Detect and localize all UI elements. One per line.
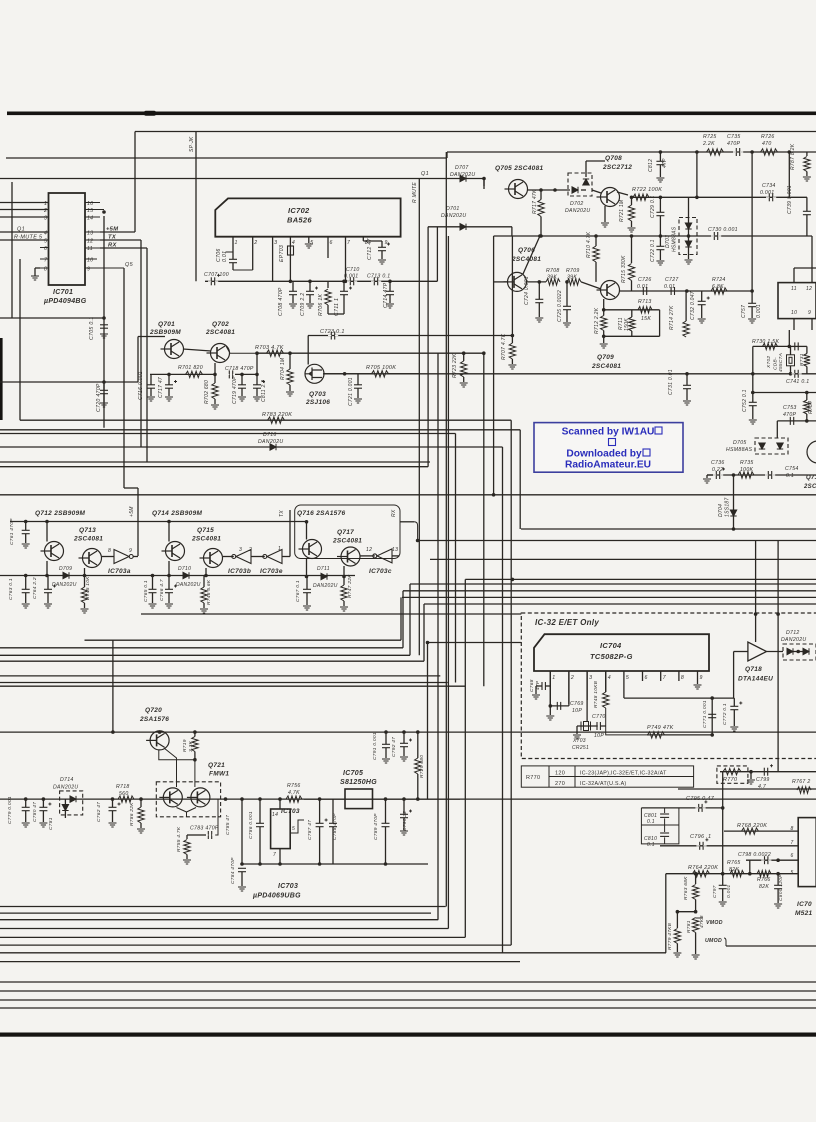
wire C798 riser bbox=[749, 860, 751, 874]
wire C720 lower stub bbox=[103, 394, 105, 402]
resistor R721 bbox=[628, 205, 634, 221]
junction R724 right bbox=[750, 289, 754, 293]
diode D716 bbox=[270, 444, 276, 450]
svg-text:R745 10K: R745 10K bbox=[85, 576, 91, 600]
capacitor C718 series bbox=[226, 370, 236, 378]
IC704 body bbox=[534, 634, 709, 671]
wire R723 stub2 bbox=[463, 377, 465, 382]
svg-text:12: 12 bbox=[87, 239, 93, 245]
wire step vertical x=410 bbox=[409, 584, 411, 655]
svg-text:Q1: Q1 bbox=[421, 171, 429, 177]
junction R725 left bbox=[695, 150, 699, 154]
capacitor C770 plates bbox=[597, 722, 600, 730]
junction x=677 branch bbox=[676, 910, 680, 914]
wire vertical x=104 pin15 bbox=[103, 216, 105, 428]
resistor R712 bbox=[601, 316, 607, 331]
transistor Q709 bbox=[597, 281, 620, 300]
wire C761 stub bbox=[25, 522, 27, 531]
svg-text:Q705 2SC4081: Q705 2SC4081 bbox=[495, 165, 543, 172]
wire vertical x=427.5 bbox=[427, 643, 429, 800]
ground C736 bbox=[703, 479, 711, 483]
wire R725 riser bbox=[696, 152, 698, 197]
capacitor C763 bbox=[22, 589, 30, 592]
svg-text:C781: C781 bbox=[48, 817, 54, 830]
svg-text:C720 470P: C720 470P bbox=[96, 383, 102, 412]
wire IC701 pin5 line RMUTE bbox=[0, 239, 48, 241]
svg-text:2SB909M: 2SB909M bbox=[149, 329, 181, 336]
junction D711 left bbox=[305, 575, 309, 579]
svg-text:9: 9 bbox=[700, 675, 703, 681]
capacitor C786 bbox=[256, 823, 264, 826]
svg-text:Q717: Q717 bbox=[337, 529, 354, 536]
wire pin9 link bbox=[363, 240, 382, 242]
wire P749 line bbox=[647, 734, 712, 736]
ground R721 bbox=[628, 228, 636, 232]
resistor R755 bbox=[184, 840, 190, 855]
junction R720 bottom bbox=[416, 797, 420, 801]
transistor Q701 bbox=[161, 340, 184, 359]
capacitor C716 bbox=[147, 385, 155, 388]
junction Q713 bottom bbox=[83, 574, 87, 578]
resistor R787 bbox=[804, 157, 810, 172]
junction C779 top bbox=[24, 797, 28, 801]
junction C789 top bbox=[384, 797, 388, 801]
resistor R720 bbox=[415, 758, 421, 774]
svg-text:C761 470P: C761 470P bbox=[9, 518, 15, 545]
wire IC703c input line bbox=[392, 555, 400, 557]
wire IC704 pin 5 stub bbox=[623, 671, 625, 698]
junction R707 top bbox=[511, 334, 515, 338]
capacitor C736 bbox=[713, 468, 725, 480]
wire R770 gnd stub bbox=[750, 772, 752, 779]
junction R734 top bbox=[805, 391, 809, 395]
transistor Q705 bbox=[505, 180, 528, 199]
wire Q708 base feed bbox=[592, 190, 601, 193]
wire R730 left riser bbox=[752, 346, 754, 392]
junction C786 bottom bbox=[258, 862, 262, 866]
wire C800 stub bbox=[777, 874, 779, 885]
wire Q705 collector line bbox=[527, 189, 570, 191]
wire bus y=682.5 bbox=[0, 682, 448, 684]
ground C712 bbox=[378, 260, 386, 264]
wire step vertical x=403 bbox=[402, 591, 404, 648]
ground C716 bbox=[147, 397, 155, 401]
svg-text:D704: D704 bbox=[718, 504, 724, 517]
junction D704 bottom bbox=[732, 527, 736, 531]
junction pin1 bottom bbox=[549, 704, 553, 708]
wire C780 stub2 bbox=[42, 811, 44, 822]
resistor P749 bbox=[648, 732, 665, 738]
wire IC703 bottom rail y=864 bbox=[242, 863, 428, 865]
svg-text:Q5: Q5 bbox=[125, 262, 134, 268]
capacitor C757 bbox=[748, 303, 756, 306]
junction R719 top bbox=[193, 730, 197, 734]
bottom thick border bar bbox=[0, 1033, 816, 1037]
wire Q716 collector riser bbox=[306, 522, 308, 540]
diode D714 upper bbox=[70, 796, 76, 802]
wire R706-C711 bottom link bbox=[328, 313, 344, 315]
svg-text:TX: TX bbox=[279, 510, 285, 517]
ground C780 bbox=[39, 823, 47, 827]
svg-text:13: 13 bbox=[392, 547, 398, 553]
wire x=666 drop bbox=[665, 874, 667, 953]
capacitor C734 bbox=[766, 193, 776, 201]
svg-text:2.2K: 2.2K bbox=[702, 141, 715, 147]
svg-text:HSM88AS: HSM88AS bbox=[726, 447, 753, 453]
capacitor C717 electrolytic bbox=[165, 380, 177, 388]
ground C766 bbox=[165, 604, 173, 608]
capacitor C790 electrolytic bbox=[400, 810, 412, 818]
wire C725 stub bbox=[566, 282, 568, 306]
wire C736 gnd link bbox=[707, 474, 713, 476]
diode D705 left bbox=[759, 443, 765, 449]
wire R787 stub2 bbox=[806, 172, 808, 177]
svg-text:C769: C769 bbox=[570, 701, 584, 707]
capacitor C710 series bbox=[347, 277, 357, 285]
junction R730 pin10 bbox=[788, 345, 792, 349]
wire IC704 pin 2 stub bbox=[568, 671, 570, 704]
wire step vertical x=401 bbox=[400, 597, 402, 640]
resistor R783 bbox=[268, 417, 285, 423]
svg-text:2: 2 bbox=[43, 208, 47, 214]
wire TX route y=447 bbox=[0, 446, 503, 448]
svg-text:C735: C735 bbox=[727, 134, 741, 140]
wire C721 stub2 bbox=[357, 389, 359, 399]
svg-text:C771 0.001: C771 0.001 bbox=[702, 700, 708, 728]
wire vertical x=438 long bbox=[437, 353, 439, 920]
wire IC703e input bbox=[282, 556, 290, 558]
wire D702 top link bbox=[586, 160, 605, 162]
resistor R703 bbox=[267, 350, 284, 356]
svg-text:C764 2.2: C764 2.2 bbox=[32, 577, 38, 599]
capacitor C708 bbox=[289, 291, 297, 294]
wire bus y=429.8 bbox=[0, 429, 520, 431]
svg-text:0.01: 0.01 bbox=[664, 284, 675, 290]
capacitor C780 electrolytic bbox=[39, 803, 51, 811]
wire R715 stub2 bbox=[631, 281, 633, 292]
junction D702 in bbox=[553, 188, 557, 192]
junction bus642 x=427.5 bbox=[426, 641, 430, 645]
wire main bus y=236 bbox=[494, 235, 812, 237]
junction C719 top bbox=[240, 373, 244, 377]
svg-text:RadioAmateur.EU: RadioAmateur.EU bbox=[565, 460, 651, 471]
top bar ink blob bbox=[144, 111, 156, 116]
junction R719 bottom bbox=[193, 758, 197, 762]
wire Q702 emitter down bbox=[214, 363, 216, 374]
junction Q717 bottom bbox=[342, 575, 346, 579]
diode D707 bbox=[460, 175, 466, 181]
resistor R770 dashed box bbox=[717, 766, 748, 783]
wire C790 stub2 bbox=[403, 818, 405, 830]
wire C811 stub bbox=[256, 374, 258, 384]
svg-text:CDB-: CDB- bbox=[773, 357, 779, 370]
capacitor C726 bbox=[640, 287, 650, 295]
ground C772 bbox=[730, 727, 738, 731]
wire C762 stub bbox=[112, 799, 114, 807]
transistor Q702 bbox=[207, 344, 230, 363]
ground C761 bbox=[22, 544, 30, 548]
svg-text:C763 0.1: C763 0.1 bbox=[8, 578, 14, 600]
wire C752 stub2 bbox=[752, 406, 754, 419]
op-amp M5218 block bbox=[798, 818, 816, 887]
wire vertical x=446 long bbox=[445, 152, 447, 907]
wire top bus y=152 right bbox=[447, 151, 816, 153]
ground C752 bbox=[749, 420, 757, 424]
diode D701 bbox=[460, 224, 466, 230]
wire C712 stub bbox=[381, 241, 383, 247]
svg-text:3: 3 bbox=[44, 216, 47, 222]
wire R745 stub2 bbox=[84, 603, 86, 608]
watermark square1 bbox=[655, 427, 662, 434]
IF block IC right top bbox=[778, 283, 816, 319]
svg-text:C800 120P: C800 120P bbox=[778, 874, 784, 901]
ground D703 bbox=[685, 260, 693, 264]
wire C800 stub2 bbox=[777, 889, 779, 903]
ground C731 bbox=[683, 401, 691, 405]
junction C800 top bbox=[776, 872, 780, 876]
resistor R719 bbox=[192, 737, 198, 752]
capacitor C801 C810 parallel loop bbox=[641, 808, 679, 844]
svg-text:D714: D714 bbox=[60, 777, 74, 783]
resistor R764 bbox=[693, 871, 710, 877]
wire R701 line bbox=[150, 373, 215, 375]
ground R702 bbox=[211, 405, 219, 409]
wire C717 stub bbox=[168, 374, 170, 384]
svg-text:0.001: 0.001 bbox=[726, 884, 732, 898]
wire C779 stub2 bbox=[25, 811, 27, 822]
svg-text:C708 470P: C708 470P bbox=[278, 287, 284, 316]
wire top bus y=158 left bbox=[6, 157, 447, 159]
wire C799 drop bbox=[722, 772, 724, 808]
inverter IC703c bbox=[373, 549, 392, 563]
svg-text:IC-23(JAP),IC-32E/ET,IC-32A/AT: IC-23(JAP),IC-32E/ET,IC-32A/AT bbox=[580, 771, 667, 777]
op-amp IC702 body bbox=[215, 198, 400, 236]
wire vertical x=138 +5M drop bbox=[137, 488, 139, 556]
wire R721 leads bbox=[631, 197, 633, 205]
junction C786 top bbox=[258, 797, 262, 801]
svg-text:270: 270 bbox=[555, 781, 565, 787]
svg-text:Q720: Q720 bbox=[145, 707, 162, 714]
svg-text:R706 1K: R706 1K bbox=[318, 293, 324, 316]
svg-text:IC705: IC705 bbox=[343, 770, 363, 777]
transistor Q718 triangle bbox=[748, 642, 767, 661]
wire bus y=604 bbox=[424, 603, 816, 605]
svg-text:R765: R765 bbox=[727, 860, 741, 866]
svg-text:14: 14 bbox=[272, 812, 278, 818]
wire C734 line bbox=[697, 196, 807, 198]
svg-text:D703: D703 bbox=[665, 235, 671, 248]
wire IC704 pin 4 stub bbox=[605, 671, 607, 692]
svg-text:6: 6 bbox=[791, 853, 794, 859]
wire Q717 collector drop bbox=[343, 566, 345, 577]
wire C731 stub bbox=[686, 374, 688, 385]
wire C714 stub2 bbox=[389, 295, 391, 303]
wire C706 stub3 bbox=[232, 263, 234, 270]
transistor Q706 bbox=[504, 272, 527, 291]
wire C752 stub bbox=[752, 393, 754, 403]
wire C724 stub2 bbox=[538, 303, 540, 317]
wire bus y=597.4 bbox=[402, 596, 816, 598]
wire IC702 pin 7 stub bbox=[345, 237, 347, 282]
ground C792 bbox=[400, 757, 408, 761]
svg-text:47P: 47P bbox=[662, 158, 668, 168]
wire C764 stub bbox=[47, 576, 49, 590]
svg-text:D711: D711 bbox=[317, 566, 330, 572]
inverter IC703b bbox=[232, 550, 251, 564]
wire vertical x=755 up bbox=[755, 541, 757, 615]
wire R746 stub2 bbox=[203, 603, 205, 608]
wire R702 stub bbox=[214, 374, 216, 383]
wire IC702 pin 6 stub bbox=[327, 237, 329, 258]
junction C811 top R703 bbox=[255, 373, 259, 377]
svg-text:C780 47: C780 47 bbox=[32, 802, 38, 822]
wire C719 stub bbox=[241, 374, 243, 384]
svg-text:C716 0.001: C716 0.001 bbox=[138, 371, 144, 400]
svg-text:DAN202U: DAN202U bbox=[441, 213, 466, 219]
wire R714 stub bbox=[685, 291, 687, 321]
svg-text:DAN202U: DAN202U bbox=[781, 637, 806, 643]
wire C783 left bbox=[196, 834, 206, 836]
svg-text:C766 4.7: C766 4.7 bbox=[159, 579, 165, 601]
junction R770 right bbox=[749, 770, 753, 774]
wire R702 stub2 bbox=[214, 399, 216, 404]
wire +5M stub pin13 bbox=[100, 231, 135, 233]
junction R705 left bbox=[343, 372, 347, 376]
wire IC704 pin 6 stub bbox=[642, 671, 644, 681]
svg-text:10P: 10P bbox=[572, 708, 582, 714]
capacitor C742 series bbox=[792, 342, 802, 350]
watermark square2 bbox=[609, 439, 616, 446]
wire bus y=529 bbox=[521, 528, 816, 530]
wire X702 top lead bbox=[790, 346, 792, 354]
svg-text:Q715: Q715 bbox=[197, 527, 214, 534]
wire TX stub pin12 bbox=[100, 239, 141, 241]
junction Q706 collector bbox=[538, 234, 542, 238]
svg-text:C711 1: C711 1 bbox=[334, 298, 340, 316]
wire RX stub pin11 bbox=[100, 247, 147, 249]
ground R707 bbox=[508, 365, 516, 369]
capacitor C713 series bbox=[371, 277, 381, 285]
wire diode row y=575.5 bbox=[0, 575, 355, 577]
wire vertical x=493.5 bbox=[493, 236, 495, 495]
capacitor C725 bbox=[563, 306, 571, 309]
junction D709 left bbox=[45, 574, 49, 578]
junction C714 bbox=[388, 280, 392, 284]
wire C732 stub bbox=[701, 291, 703, 301]
transistor Q713 bbox=[79, 549, 102, 568]
capacitor C761 bbox=[22, 530, 30, 533]
junction C798 bbox=[776, 858, 780, 862]
svg-text:12: 12 bbox=[366, 547, 372, 553]
wire R730 line bbox=[753, 345, 791, 347]
svg-text:Q712 2SB909M: Q712 2SB909M bbox=[35, 510, 85, 517]
wire C789 stub2 bbox=[385, 827, 387, 864]
svg-text:C729 0.1: C729 0.1 bbox=[650, 195, 656, 218]
capacitor C724 bbox=[535, 299, 543, 302]
svg-text:VMOD: VMOD bbox=[706, 920, 723, 926]
junction IC703 pin14 bbox=[278, 797, 282, 801]
wire Q721 emitters bbox=[177, 799, 219, 835]
wire IC703 pin7 stub bbox=[279, 849, 281, 864]
crystal X703 body bbox=[581, 722, 591, 731]
wire Q716 emitter drop bbox=[306, 559, 308, 577]
wire C786 stub bbox=[259, 799, 261, 823]
wire R720 stub2 bbox=[417, 774, 419, 799]
resistor R714 bbox=[683, 321, 689, 337]
wire C709 stub2 bbox=[309, 295, 311, 303]
wire R745 stub bbox=[84, 576, 86, 588]
capacitor C714 bbox=[386, 291, 394, 294]
svg-text:R701 820: R701 820 bbox=[178, 365, 203, 371]
capacitor C754 bbox=[765, 471, 775, 479]
regulator IC705 body bbox=[345, 789, 373, 809]
junction C787 bottom bbox=[318, 862, 322, 866]
ground R704 bbox=[286, 392, 294, 396]
ground X703 bbox=[573, 735, 581, 739]
resistor R781 bbox=[692, 918, 698, 933]
wire R704 stub bbox=[289, 353, 291, 369]
capacitor C799 electrolytic bbox=[761, 764, 773, 776]
junction C729 bottom bbox=[659, 234, 663, 238]
svg-text:R770: R770 bbox=[526, 775, 540, 781]
svg-text:2SA1576: 2SA1576 bbox=[139, 716, 169, 723]
svg-text:C811 2.2: C811 2.2 bbox=[261, 380, 267, 402]
svg-text:R705 100K: R705 100K bbox=[366, 365, 396, 371]
wire audio box top bbox=[678, 788, 816, 790]
wire R720 stub bbox=[417, 732, 419, 758]
wire D704 riser bbox=[733, 475, 735, 529]
svg-text:R719: R719 bbox=[182, 739, 188, 752]
svg-text:0.22: 0.22 bbox=[712, 467, 723, 473]
wire X703 line bbox=[577, 725, 606, 727]
wire IC701 pin8 gnd drop bbox=[34, 268, 36, 276]
wire C796 riser bbox=[722, 808, 724, 874]
wire pin2 drop bbox=[568, 671, 570, 706]
svg-text:13: 13 bbox=[87, 231, 93, 237]
wire IC702 output line y=281.3 bbox=[205, 280, 437, 282]
wire R779 stub2 bbox=[676, 944, 678, 953]
wire C705 stub bbox=[103, 318, 105, 325]
ground C721 bbox=[354, 399, 362, 403]
wire D714 lower stub2 bbox=[64, 811, 66, 818]
svg-text:IC70: IC70 bbox=[797, 901, 812, 908]
wire VMOD link bbox=[696, 918, 726, 946]
wire C769 line bbox=[550, 705, 569, 707]
svg-text:C741 0.1: C741 0.1 bbox=[786, 379, 809, 385]
svg-text:9: 9 bbox=[87, 267, 90, 273]
wire bottom full bus y=1000 bbox=[0, 999, 816, 1001]
wire R710 stub bbox=[595, 236, 597, 246]
wire C771 riser bbox=[711, 698, 713, 735]
wire vertical riser x=437.4 bbox=[436, 227, 438, 281]
wire pin11 stub bbox=[793, 268, 795, 283]
svg-text:R707 4.7K: R707 4.7K bbox=[501, 333, 507, 360]
svg-text:R724: R724 bbox=[712, 277, 726, 283]
resistor R718 bbox=[118, 796, 134, 802]
wire IC702 pin 4 stub bbox=[289, 237, 291, 282]
wire D701 line y=226.8 bbox=[428, 226, 512, 228]
junction pin7 on y=281 bbox=[344, 280, 348, 284]
wire IC702 pin 1 stub bbox=[232, 237, 234, 252]
svg-text:2SC3: 2SC3 bbox=[803, 484, 816, 490]
wire R763 branch bbox=[677, 911, 695, 913]
svg-text:4.7K: 4.7K bbox=[288, 790, 300, 796]
junction C780 top bbox=[42, 797, 46, 801]
resistor R746 bbox=[201, 587, 207, 603]
svg-text:C722 0.1: C722 0.1 bbox=[650, 239, 656, 262]
wire IC701 pin3 line bbox=[0, 216, 48, 218]
resistor R717 bbox=[538, 200, 544, 217]
